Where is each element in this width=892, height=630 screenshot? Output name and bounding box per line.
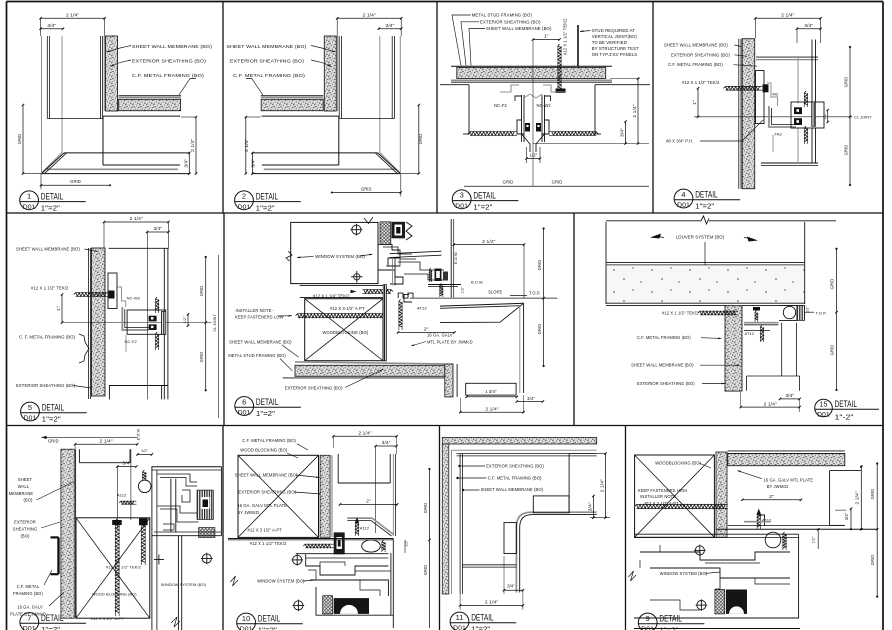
svg-text:2 1/4": 2 1/4" [244,139,250,152]
svg-text:T.O.P.: T.O.P. [529,291,540,296]
detail 4: joint extrusion block [791,102,824,128]
detail 5: dim 1/2 joint [187,314,189,325]
detail 7: wall face line [75,449,77,618]
svg-text:#12 X 3 1/2" A-PT: #12 X 3 1/2" A-PT [248,528,283,533]
svg-text:E.O.W.: E.O.W. [454,251,458,264]
svg-text:3: 3 [460,191,464,200]
svg-text:1": 1" [692,100,698,105]
svg-text:1"=2": 1"=2" [256,203,275,212]
svg-text:GRID: GRID [870,489,875,500]
svg-text:1"=2": 1"=2" [695,202,714,211]
detail 11: wall end lines [462,564,516,566]
detail 15: sill angle [744,322,778,324]
detail 7: fastener cross 1 [202,554,211,563]
detail 7: dim 3/4 [117,466,136,468]
detail 6: dim under box [467,396,517,398]
svg-text:16 GA. GALV MTL PLATE: 16 GA. GALV MTL PLATE [237,503,287,508]
detail 5: vertical spring up [156,297,159,311]
svg-text:EXTERIOR SHEATHING (BO): EXTERIOR SHEATHING (BO) [16,383,75,388]
detail 9: open rect right [829,471,831,526]
svg-text:EXTERIOR SHEATHING (BO): EXTERIOR SHEATHING (BO) [238,489,296,494]
svg-text:SHEET WALL MEMBRANE (BO): SHEET WALL MEMBRANE (BO) [229,340,292,345]
detail 9: grid dim [876,464,878,597]
svg-text:3/4": 3/4" [620,128,626,137]
detail 4: vertical spring up [804,91,807,105]
sheet border [7,1,884,3]
detail 4: panel skin bottom edges [761,162,818,164]
row2 panel dividers [223,213,225,426]
detail 9: backer rod circle [765,532,781,548]
detail 4: clip M2 [767,83,778,106]
detail 7: break arrow [171,617,180,627]
detail 4: joint gaskets [794,107,802,114]
detail 15: top boundary line with break [606,220,701,222]
detail 4: stud track rect [756,71,765,124]
detail 9: frame body [634,534,799,618]
detail 10: joint horizontal lines [228,538,393,540]
svg-text:2 1/4": 2 1/4" [485,406,498,412]
detail 5: wall double line left [87,248,89,399]
svg-text:DETAIL: DETAIL [41,191,64,201]
detail 3: screw nut [556,89,566,94]
detail 3: title bubble [452,190,471,209]
detail 3: extrusion v-bottom [522,134,531,152]
detail 6: precast verticals [519,306,521,393]
svg-text:GRID: GRID [423,565,428,576]
detail 7: backer rod circle [138,480,151,493]
svg-text:KEEP FASTENERS HIGH: KEEP FASTENERS HIGH [638,488,688,493]
detail 6: sill step lines [398,262,444,270]
svg-text:#12 X 3 1/2" A-PT: #12 X 3 1/2" A-PT [91,616,124,621]
svg-text:METAL STUD FRAMING (BO): METAL STUD FRAMING (BO) [472,13,533,18]
svg-text:2": 2" [424,327,429,333]
svg-text:D01: D01 [23,204,36,211]
svg-text:#12 X 1 1/2" TEK/2: #12 X 1 1/2" TEK/2 [662,311,699,316]
svg-text:GRID: GRID [552,180,563,185]
detail 10: receptor verticals [390,553,392,615]
detail 15: louver box sides [605,222,607,265]
detail 9: plate gray bar [744,521,771,523]
detail 6: AT12 vertical screw [399,300,402,328]
detail 11: title bubble [450,612,469,630]
svg-text:FRAMING (BO): FRAMING (BO) [13,591,43,596]
detail 7: fastener cross 2 [154,559,164,561]
detail 6: eow verticals [450,219,452,297]
detail 4: dim 1/2 joint [827,110,829,122]
detail 11: corner sheathing left band [442,444,449,594]
detail 6: precast front edges [440,303,524,322]
detail 2: corner diagonals [380,153,401,174]
detail 6: window system box [291,222,378,283]
detail 2: top dim 2 1/4 [337,17,401,19]
detail 4: dim 1 inch vertical [697,88,699,117]
svg-text:1": 1" [544,34,549,40]
detail 1: framing cavity outline [103,115,180,117]
detail 9: half inch dim [817,529,819,549]
detail 3: sheathing band [457,67,606,78]
svg-text:DETAIL: DETAIL [471,613,494,623]
svg-text:3/4": 3/4" [507,584,515,589]
svg-text:GRID: GRID [199,352,204,363]
row divider 1 [7,212,884,214]
svg-text:BY STRUCTURE TEST: BY STRUCTURE TEST [592,46,639,51]
svg-text:3/4": 3/4" [382,440,391,446]
detail 6: fastener cross top [352,225,361,234]
detail 10: galv plate bend [347,517,372,519]
svg-text:GRID: GRID [537,260,542,271]
svg-text:3/4": 3/4" [804,23,813,29]
detail 10: anchor cluster dark [334,532,345,554]
svg-text:GRID: GRID [503,180,514,185]
svg-text:B.O.W.: B.O.W. [471,280,484,284]
svg-text:C.F. METAL FRAMING (BO): C.F. METAL FRAMING (BO) [488,476,542,481]
svg-text:1"=2": 1"=2" [42,415,61,424]
svg-text:#12 X 1 1/2" TEK/2: #12 X 1 1/2" TEK/2 [682,80,720,85]
detail 2: title bubble [235,191,254,210]
detail 15: break mark top [701,216,709,224]
detail 4: title bubble [674,189,693,208]
detail 10: right grid dim [429,469,431,628]
svg-text:(BO): (BO) [23,498,33,503]
detail 4: top dim 3/4 [797,28,821,30]
detail 6: sill slope lines [390,251,442,254]
detail 1: membrane band horizontal [119,96,181,98]
detail 11: window return black J [520,515,597,593]
detail 7: window jambs below [177,536,179,630]
detail 3: centerline [532,40,534,187]
svg-text:4: 4 [681,190,685,199]
svg-text:EXTERIOR: EXTERIOR [14,520,36,525]
detail 9: break squiggle [629,571,637,581]
svg-text:D01: D01 [238,410,251,417]
detail 4: anchor tail [772,135,774,152]
detail 7: long vertical screw 1 [115,519,119,613]
detail 10: dim 2 1/4 top [333,435,396,437]
svg-text:C.F. METAL FRAMING (BO): C.F. METAL FRAMING (BO) [242,438,296,443]
detail 3: right dim 2 1/4 [610,78,640,80]
svg-text:2 1/4": 2 1/4" [600,479,606,492]
svg-text:C.F. METAL FRAMING (BO): C.F. METAL FRAMING (BO) [233,73,305,78]
svg-text:KEEP FASTENERS LOW: KEEP FASTENERS LOW [235,314,284,319]
detail 4: vertical spring down [804,126,807,142]
detail 15: backer rod circle [783,306,795,318]
svg-text:SLOPE: SLOPE [488,289,502,294]
svg-text:C.F. METAL FRAMING (BO): C.F. METAL FRAMING (BO) [637,335,691,340]
svg-text:E.O.W.: E.O.W. [137,428,141,440]
detail 2: top dim 3/4 [379,28,401,30]
svg-text:2 1/4": 2 1/4" [99,439,112,445]
svg-text:#12 X 3-1/2" A-PT: #12 X 3-1/2" A-PT [330,306,365,311]
detail 1: membrane line vertical [103,36,105,111]
detail 5: joint extrusion block [127,310,166,334]
detail 15: lower open box [747,375,800,377]
detail 10: dim 3/4 top [376,445,397,447]
svg-text:#12 X 1 1/2" TEK/2: #12 X 1 1/2" TEK/2 [250,541,287,546]
svg-text:WOOD BLOCKING (BO): WOOD BLOCKING (BO) [92,591,137,596]
svg-text:#12 X 1 1/2" TEK/2: #12 X 1 1/2" TEK/2 [563,18,568,55]
svg-text:DETAIL: DETAIL [695,190,718,200]
svg-text:SHEET WALL MEMBRANE (BO): SHEET WALL MEMBRANE (BO) [664,43,728,48]
detail 10: vertical screw [355,521,358,534]
detail 1: top dim 3/4 [41,28,63,30]
svg-text:GRID: GRID [199,286,204,297]
detail 6: subsill band [300,284,385,286]
svg-text:ON TYP.3'X3' PANELS: ON TYP.3'X3' PANELS [592,52,638,57]
svg-text:3/4": 3/4" [588,502,594,511]
detail 10: break squiggle [230,576,238,586]
svg-text:SHEET WALL MEMBRANE (BO): SHEET WALL MEMBRANE (BO) [132,44,212,49]
row3 panel dividers [222,426,224,630]
svg-text:METAL STUD FRAMING (BO): METAL STUD FRAMING (BO) [228,353,286,358]
detail 5: lower pi box [109,385,162,387]
detail 9: joint horizontal lines [728,524,845,526]
svg-text:10: 10 [242,614,250,623]
svg-text:#8 X 3/4" P.H.: #8 X 3/4" P.H. [666,139,693,144]
detail 1: title bubble [20,191,39,210]
svg-text:EXTERIOR SHEATHING (BO): EXTERIOR SHEATHING (BO) [637,381,695,386]
detail 3: joint cavity right notch [595,84,650,86]
svg-text:GRID: GRID [844,145,849,156]
svg-text:DETAIL: DETAIL [41,613,64,623]
detail 5: dim 1 inch vertical [61,295,63,323]
svg-text:EXTERIOR SHEATHING (BO): EXTERIOR SHEATHING (BO) [230,59,304,64]
detail 2: membrane band horizontal [261,96,323,98]
svg-text:DETAIL: DETAIL [659,614,682,624]
svg-text:3/4": 3/4" [251,159,257,168]
svg-text:D01: D01 [455,203,468,210]
detail 3: right dim 3/4 [625,122,627,144]
svg-text:SHEET WALL MEMBRANE (BO): SHEET WALL MEMBRANE (BO) [235,472,298,477]
detail 9: title bubble [638,613,657,630]
svg-text:DETAIL: DETAIL [42,403,64,413]
svg-text:GRID: GRID [361,186,372,191]
svg-text:SHEET WALL MEMBRANE (BO): SHEET WALL MEMBRANE (BO) [486,26,552,31]
svg-text:D01: D01 [23,626,36,630]
detail 5: panel top edge [109,247,169,249]
detail 6: dim 2 1/4 bottom [460,411,523,413]
svg-text:BY JWMcD: BY JWMcD [767,484,789,489]
detail 3: mullion extrusion verticals [521,95,523,142]
detail 11: bottom dim 2 1/4 [460,605,523,607]
detail 1: top dim 2 1/4 [41,17,105,19]
detail 2: membrane line vertical [337,36,339,111]
detail 7: cf framing bracket [57,537,59,574]
svg-text:INSTALLER NOTE -: INSTALLER NOTE - [640,494,679,499]
detail 6: long anchor screw [296,314,383,318]
detail 4: centerline cl joint [694,116,852,118]
detail 15: hex bolt [753,307,760,311]
detail 9: two inch dim [742,499,801,501]
detail 7: wall strip [61,449,74,618]
detail 9: sheathing strip [716,452,727,537]
svg-text:11: 11 [456,613,464,622]
svg-text:GRID: GRID [870,555,875,566]
detail 3: hanging clip left [500,85,519,92]
svg-text:3/4": 3/4" [47,23,56,29]
svg-text:7: 7 [27,613,31,622]
detail 2: grid dim outer [418,105,420,174]
svg-text:1"=2": 1"=2" [258,626,277,630]
detail 6: sheathing turn down [445,364,453,397]
detail 10: glazing pocket dark bars [334,598,369,614]
svg-text:1/2": 1/2" [183,316,187,324]
detail 2: sheathing band horizontal [261,99,323,110]
detail 3: glazing gasket blocks [525,123,530,132]
detail 5: horizontal screw [74,293,107,297]
svg-text:CL JOINT: CL JOINT [854,115,872,119]
detail 11: right dim 3/4 [593,496,595,518]
svg-text:D01: D01 [24,415,37,422]
svg-text:1"=2": 1"=2" [471,625,490,630]
detail 9: bottom line [634,628,800,630]
detail 5: anchor NC-F2 [122,307,148,330]
detail 6: glazing gasket right [406,222,412,240]
svg-text:3/4": 3/4" [844,512,849,520]
svg-text:2 1/4": 2 1/4" [764,401,777,407]
detail 10: u-box jamb [337,454,339,483]
detail 9: right dim 2 1/4 [860,467,862,530]
svg-text:D01: D01 [238,204,251,211]
detail 3: joint cavity left notch [440,84,469,86]
svg-text:16 GA. GALV: 16 GA. GALV [17,605,43,610]
detail 6: one3quarter box [466,383,516,395]
detail 2: gray mullion verticals [399,36,401,173]
svg-text:GRID: GRID [423,503,428,514]
svg-text:1/2": 1/2" [823,112,827,120]
detail 5: vertical spring down [156,332,159,348]
svg-text:1: 1 [27,192,31,201]
detail 6: sill gasket squiggles [429,268,431,281]
detail 4: joint gray verticals [797,57,799,103]
svg-text:1"=2": 1"=2" [256,409,275,418]
detail 10: membrane line [331,455,333,537]
detail 15: dim 3/4 bottom [780,398,800,400]
detail 11: corner sheathing top band [442,437,596,444]
svg-text:INSTALLER NOTE -: INSTALLER NOTE - [236,308,275,313]
detail 1: corner diagonals [42,153,63,174]
svg-text:T.O.P.: T.O.P. [816,311,827,316]
detail 2: dim 3/4 inner vertical [252,153,254,174]
detail 15: title bubble [815,399,833,417]
detail 3: horizontal screw left [468,132,514,136]
detail 7: long vertical screw 2 [141,519,145,562]
detail 7: sealant squiggle [143,470,146,479]
detail 4: right grid dim [849,47,851,185]
detail 3: label leaders [452,15,471,66]
detail 11: inner gray corner lines [452,449,597,451]
svg-text:NC-W2: NC-W2 [537,103,552,108]
detail 10: sheathing strip [320,455,330,537]
svg-text:3/4": 3/4" [527,396,535,401]
detail 7: small screw [119,501,134,504]
svg-text:C.F. METAL FRAMING (BO): C.F. METAL FRAMING (BO) [132,73,204,78]
svg-text:D01: D01 [453,625,466,630]
detail 5: anchor tail [125,335,127,352]
detail 1: sheathing strip vertical [106,36,118,111]
detail 6: grid dim lower right [543,298,545,366]
svg-text:1"=2": 1"=2" [473,202,492,211]
detail 4: top dim 2 1/4 [755,17,820,19]
detail 6: sealant squiggle [440,283,443,295]
detail 5: stud track rect [108,273,117,309]
svg-text:EXTERIOR SHEATHING (BO): EXTERIOR SHEATHING (BO) [132,59,206,64]
svg-text:WINDOW SYSTEM (BO): WINDOW SYSTEM (BO) [315,254,365,259]
svg-text:2 1/4": 2 1/4" [632,104,638,117]
detail 2: dim 2 1/4 inner vertical [245,117,247,174]
detail 4: panel face verticals [811,40,813,102]
detail 4: joint hatch bar [812,102,816,126]
svg-text:1/2": 1/2" [812,536,816,544]
detail 1: grid dim bottom [41,184,110,186]
detail 9: vertical screw [757,512,760,527]
detail 10: jamb gray pair [392,454,394,536]
detail 3: extrusion top hooks [515,96,522,101]
svg-text:2: 2 [242,192,246,201]
detail 6: subsill screw [364,290,393,294]
svg-text:2": 2" [769,494,774,500]
svg-text:FA2: FA2 [775,132,783,137]
detail 3: dim 1/2 bottom [526,147,528,163]
detail 15: top lines right [779,305,797,307]
detail 15: vertical screw [760,325,763,341]
detail 11: right dim 2 1/4 [569,453,605,455]
detail 5: panel bottom edge [127,385,168,387]
svg-text:SHEET WALL MEMBRANE (BO): SHEET WALL MEMBRANE (BO) [481,487,544,492]
svg-text:2 1/4": 2 1/4" [781,13,794,19]
detail 9: sealant squiggle [783,532,786,548]
svg-text:AT12: AT12 [417,306,427,311]
detail 7: grid arrow top [41,436,137,438]
detail 1: dim 2 1/4 inner vertical [195,117,197,174]
detail 9: window head flange [634,533,799,535]
svg-text:LOUVER SYSTEM (BO): LOUVER SYSTEM (BO) [676,235,725,240]
detail 6: glazing checker block [380,222,391,245]
detail 6: right vdim to top [523,245,525,299]
detail 3: bottom sheet line [464,185,649,187]
svg-text:BY JWMcD: BY JWMcD [237,510,259,515]
detail 10: checker block [323,596,333,614]
detail 1: gray mullion verticals [41,36,43,173]
detail 7: dim 2 1/4 top [75,443,137,445]
detail 5: clip NC-W2 [118,287,126,307]
detail 6: sheathing band bottom [295,365,445,376]
svg-text:#12 X 1 1/2" TEK/2: #12 X 1 1/2" TEK/2 [106,565,141,570]
detail 3: hanging clip right [543,85,566,92]
detail 9: right dim 3/4 [850,509,852,530]
svg-text:DETAIL: DETAIL [258,614,281,624]
detail 6: sill anchor dark cluster [435,269,442,282]
detail 11: jamb stud box lower [504,523,516,554]
detail 10: horizontal screw [303,544,331,548]
detail 9: top band double lines [728,450,845,452]
detail 5: top dim 3/4 [147,231,169,233]
detail 15: head channel verticals [781,323,783,376]
detail 5: screw washer [109,291,115,299]
svg-text:AT12: AT12 [745,331,755,336]
svg-text:GRID: GRID [418,134,423,145]
detail 11: jamb stud box upper [533,496,569,513]
detail 1: grid dim outer [22,105,24,174]
svg-text:EXTERIOR SHEATHING (BO): EXTERIOR SHEATHING (BO) [671,52,730,57]
detail 1: sheathing band horizontal [119,99,181,110]
detail 1: black framing verticals [46,36,48,119]
detail 5: cl joint line right [218,255,220,418]
detail 6: break squiggle left [286,251,292,261]
detail 10: fastener cross 1 [293,555,302,564]
svg-text:16 GA. GALV MTL PLATE: 16 GA. GALV MTL PLATE [764,477,814,482]
svg-text:1"=2": 1"=2" [659,626,678,630]
svg-text:NC-W2: NC-W2 [127,296,141,301]
